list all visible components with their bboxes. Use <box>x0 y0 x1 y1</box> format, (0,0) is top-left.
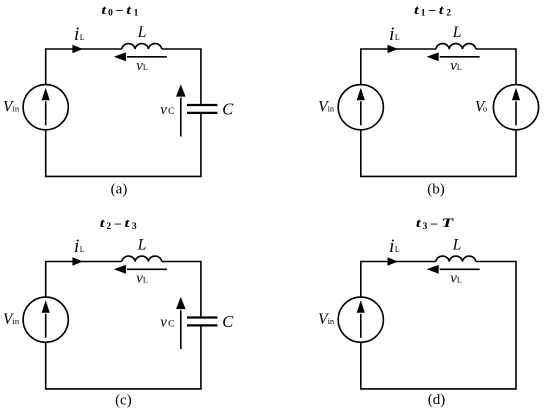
wire: top-left segment (a) <box>45 48 122 50</box>
svg-text:–: – <box>430 215 438 230</box>
svg-text:T: T <box>441 215 454 230</box>
source arrow inside Vin (b) <box>357 88 365 126</box>
voltage source Vin (b) <box>338 85 383 130</box>
svg-text:(a): (a) <box>111 181 128 197</box>
svg-text:t: t <box>125 216 131 231</box>
svg-text:L: L <box>452 24 462 41</box>
wire: left lower segment (b) <box>360 130 362 177</box>
source arrow inside Vin (d) <box>357 300 365 338</box>
svg-text:(b): (b) <box>427 182 445 198</box>
wire: right upper segment (b) <box>515 49 517 85</box>
wire: left lower segment (c) <box>45 342 47 389</box>
current arrow iL (a) <box>72 45 82 54</box>
wire: right segment (d) <box>515 262 517 389</box>
wire: right upper segment (c) <box>200 262 202 317</box>
vC polarity arrow (c) <box>176 297 186 349</box>
source arrow inside Vo (b) <box>512 88 520 126</box>
svg-text:3: 3 <box>132 222 137 232</box>
wire: top-right segment (d) <box>476 261 517 263</box>
interval title t0-t1 (a) <box>101 2 138 19</box>
wire: left upper segment (d) <box>360 262 362 298</box>
current arrow iL (b) <box>388 45 398 54</box>
wire: top-left segment (c) <box>45 261 122 263</box>
voltage source Vo (b) <box>493 85 538 130</box>
inductor L (a) <box>122 44 162 49</box>
interval title t1-t2 (b) <box>414 2 451 19</box>
vL polarity arrow (c) <box>114 265 167 274</box>
svg-text:L: L <box>137 24 147 41</box>
vL polarity arrow (a) <box>114 52 167 61</box>
interval title t2-t3 (c) <box>100 215 137 232</box>
vL polarity arrow (b) <box>427 52 480 61</box>
wire: bottom segment (c) <box>45 388 202 390</box>
voltage source Vin (d) <box>338 297 383 342</box>
svg-text:–: – <box>428 2 436 17</box>
current arrow iL (c) <box>72 257 82 266</box>
voltage source Vin (c) <box>23 297 68 342</box>
svg-text:C: C <box>222 312 234 331</box>
wire: right lower segment (c) <box>200 327 202 389</box>
vL polarity arrow (d) <box>427 265 480 274</box>
svg-text:C: C <box>222 100 234 119</box>
wire: top-right segment (b) <box>476 48 517 50</box>
wire: right lower segment (b) <box>515 130 517 177</box>
capacitor C plates (c) <box>187 318 217 326</box>
svg-text:0: 0 <box>108 9 113 19</box>
svg-text:3: 3 <box>423 222 428 232</box>
wire: left upper segment (b) <box>360 49 362 85</box>
inductor L (c) <box>122 256 162 261</box>
interval title t3-T (d) <box>416 215 454 232</box>
wire: bottom segment (d) <box>360 388 517 390</box>
wire: top-right segment (a) <box>162 48 202 50</box>
svg-text:2: 2 <box>446 9 451 19</box>
current arrow iL (d) <box>388 257 398 266</box>
wire: top-left segment (d) <box>360 261 436 263</box>
svg-text:t: t <box>126 3 132 18</box>
wire: right lower segment (a) <box>200 114 202 176</box>
svg-text:1: 1 <box>134 9 139 19</box>
source arrow inside Vin (a) <box>42 88 50 126</box>
wire: right upper segment (a) <box>200 49 202 104</box>
svg-text:t: t <box>414 3 420 18</box>
svg-text:–: – <box>115 2 123 17</box>
vC polarity arrow (a) <box>176 84 186 136</box>
svg-text:t: t <box>100 216 106 231</box>
inductor L (b) <box>436 44 476 49</box>
svg-text:2: 2 <box>106 222 111 232</box>
wire: left lower segment (d) <box>360 342 362 389</box>
capacitor C plates (a) <box>187 105 217 113</box>
source arrow inside Vin (c) <box>42 300 50 338</box>
svg-text:L: L <box>452 236 462 253</box>
wire: bottom segment (b) <box>360 175 517 177</box>
wire: left upper segment (a) <box>45 49 47 85</box>
inductor L (d) <box>436 256 476 261</box>
svg-text:t: t <box>439 3 445 18</box>
wire: left upper segment (c) <box>45 262 47 298</box>
wire: left lower segment (a) <box>45 130 47 177</box>
svg-text:(d): (d) <box>428 392 446 408</box>
svg-text:1: 1 <box>421 9 426 19</box>
wire: top-right segment (c) <box>162 261 202 263</box>
svg-text:–: – <box>114 215 122 230</box>
svg-text:L: L <box>137 236 147 253</box>
voltage source Vin (a) <box>23 85 68 130</box>
wire: top-left segment (b) <box>360 48 436 50</box>
wire: bottom segment (a) <box>45 175 202 177</box>
svg-text:(c): (c) <box>115 392 132 408</box>
